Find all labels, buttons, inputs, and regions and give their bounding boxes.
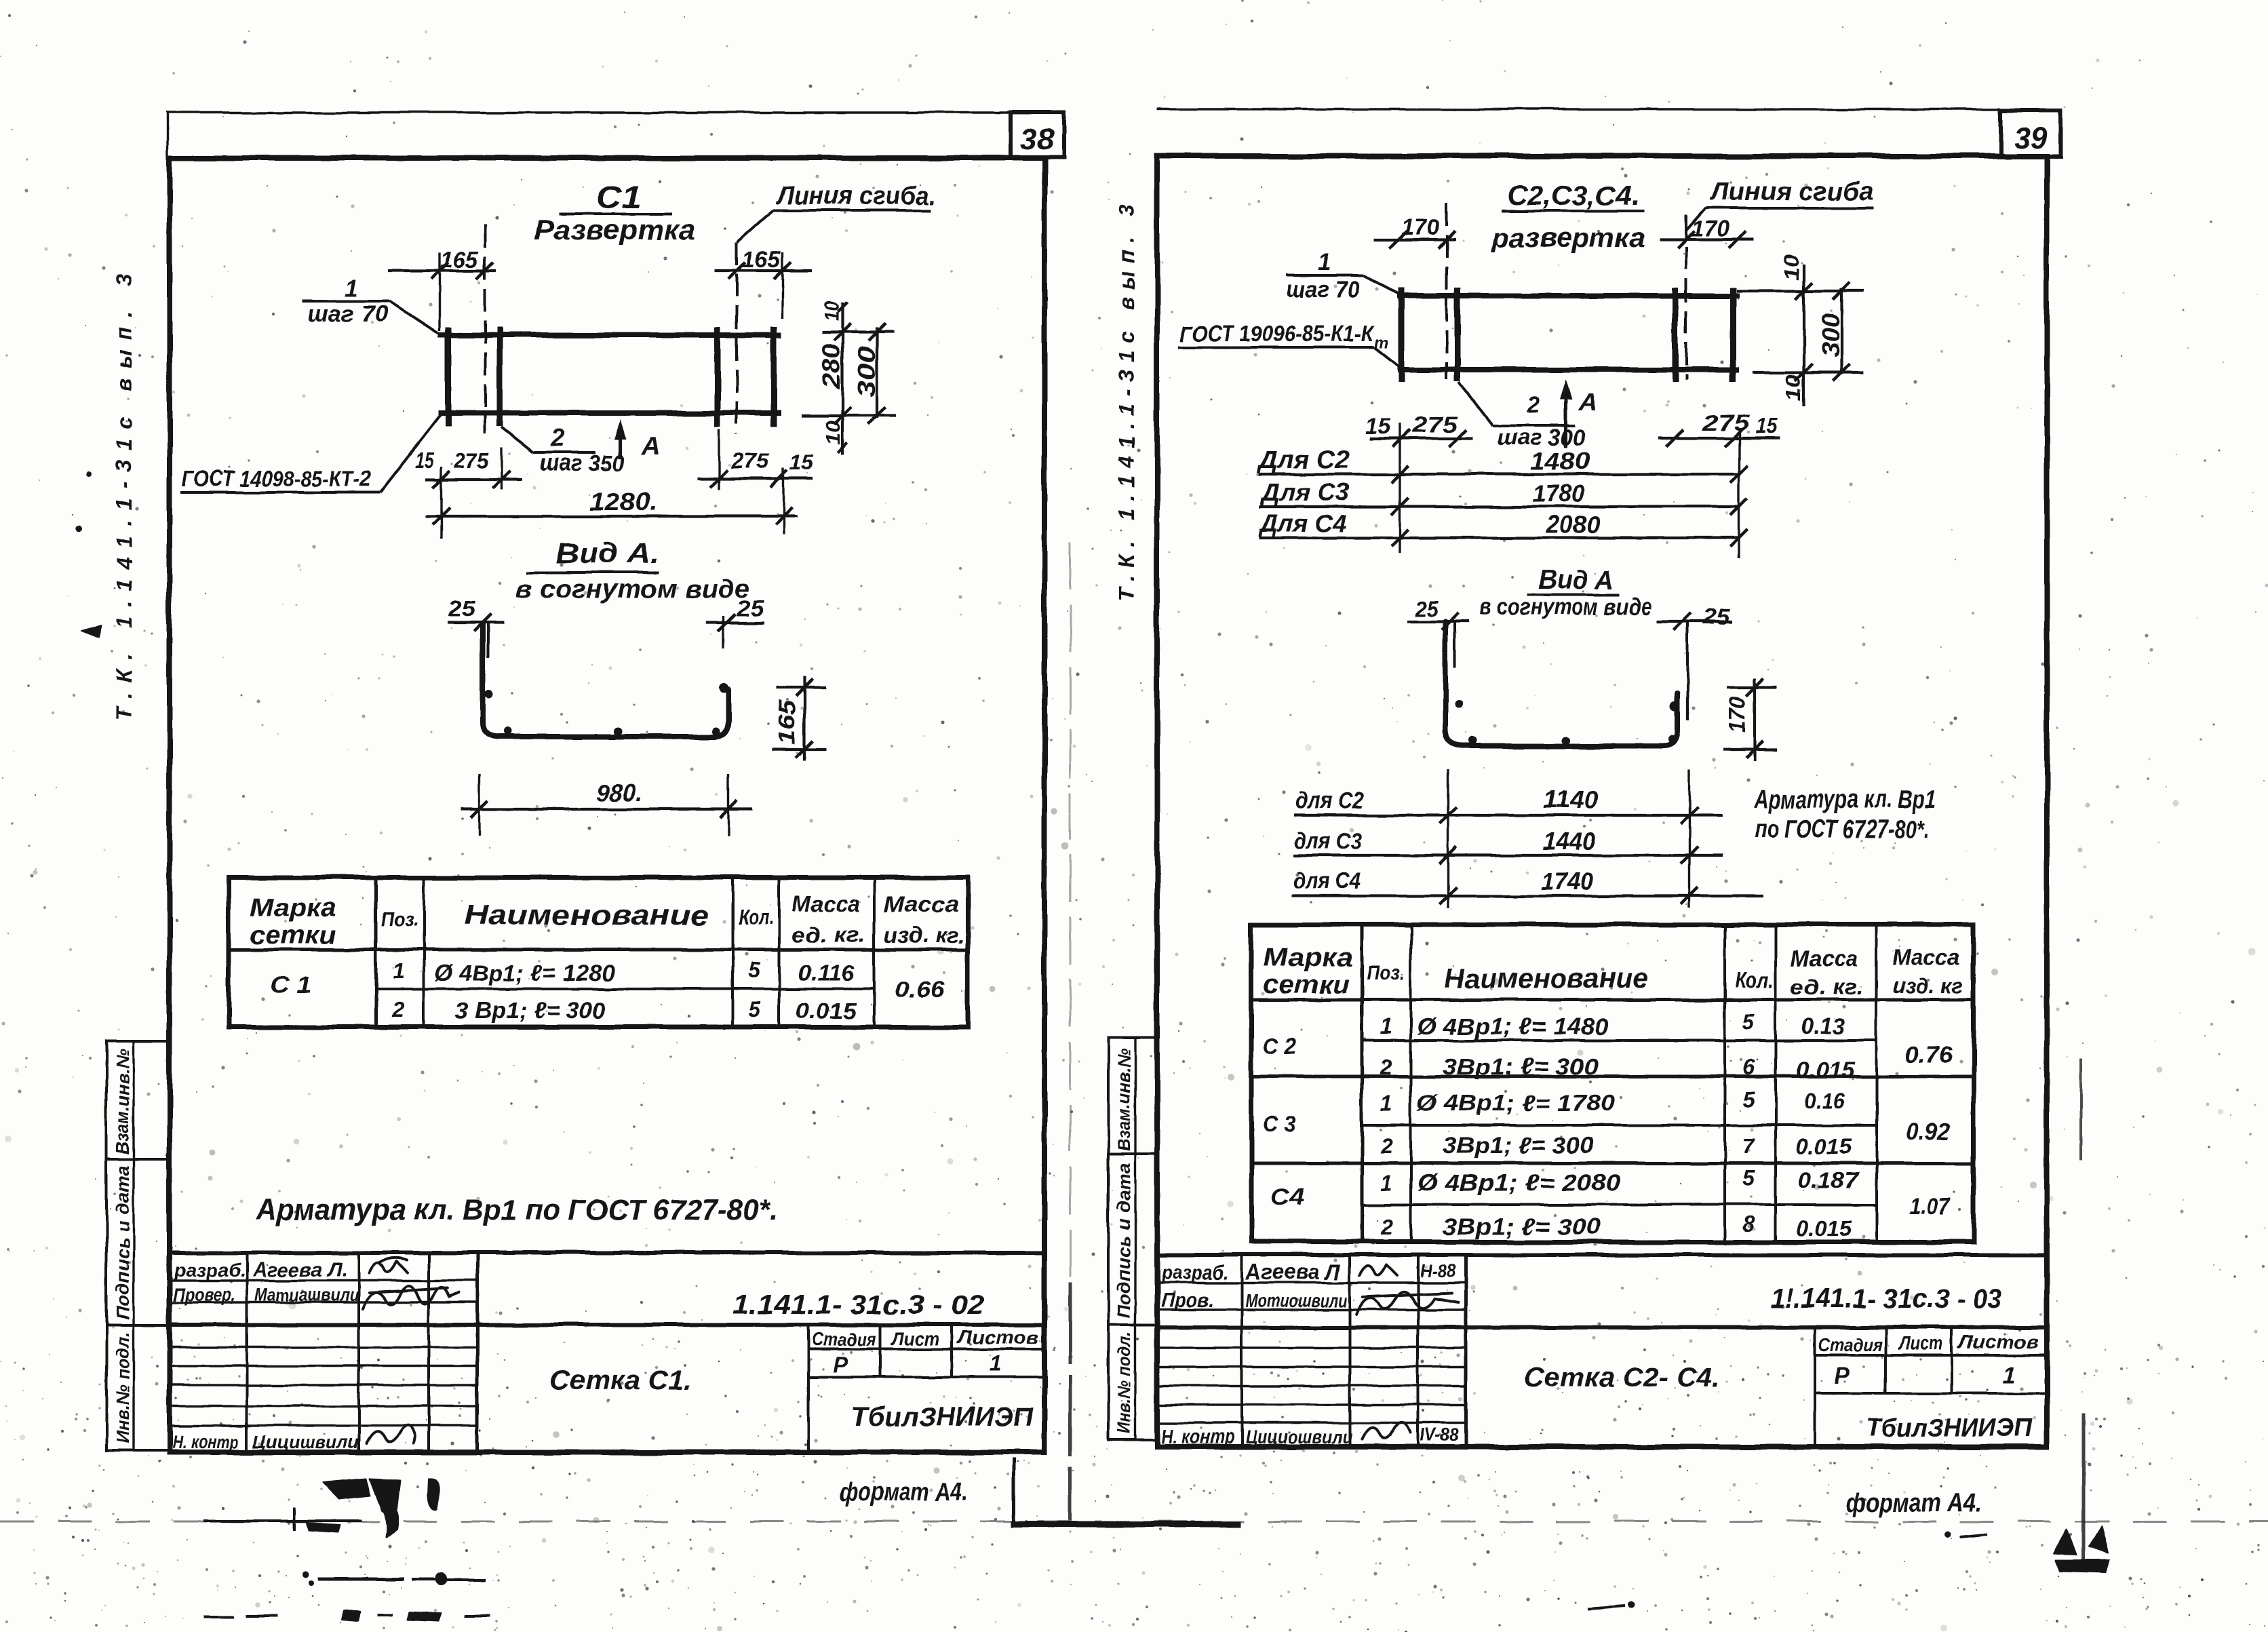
svg-text:2: 2 [549,424,564,452]
wire section dots [1469,737,1477,745]
svg-text:1: 1 [1380,1171,1392,1195]
svg-text:5: 5 [1742,1087,1755,1112]
svg-text:для С2: для С2 [1295,788,1363,814]
svg-text:С 3: С 3 [1263,1111,1296,1137]
svg-text:0.187: 0.187 [1797,1168,1860,1192]
svg-text:Стадия: Стадия [1818,1334,1882,1355]
svg-text:15: 15 [790,450,814,475]
svg-text:1.07: 1.07 [1909,1194,1951,1220]
mesh C1 cross bar 3 [715,327,721,427]
svg-text:ТбилЗНИИЭП: ТбилЗНИИЭП [1866,1414,2033,1443]
svg-text:ед. кг.: ед. кг. [792,922,865,947]
svg-text:0.015: 0.015 [1796,1134,1852,1159]
svg-text:1440: 1440 [1543,828,1596,855]
mesh C1 cross bar 1 [446,327,452,427]
title block sheet 38 [170,1251,1044,1255]
svg-text:0.116: 0.116 [798,961,855,986]
svg-text:170: 170 [1725,697,1751,733]
sheet 38 frame border [170,158,1044,1452]
svg-text:Арматура кл. Вр1: Арматура кл. Вр1 [1754,785,1936,814]
svg-text:Провер,: Провер, [173,1284,235,1305]
svg-text:2080: 2080 [1546,511,1601,539]
svg-text:формат А4.: формат А4. [1846,1489,1982,1517]
bottom-right streak and blobs [2079,1058,2082,1160]
svg-text:Вид А: Вид А [1538,565,1614,595]
svg-text:по ГОСТ 6727-80*.: по ГОСТ 6727-80*. [1755,815,1930,844]
svg-text:С4: С4 [1271,1184,1304,1210]
sheet 39 left filing strip [1108,1038,1157,1440]
svg-text:Марка: Марка [250,894,336,922]
svg-text:3Вр1; ℓ= 300: 3Вр1; ℓ= 300 [1443,1054,1599,1080]
svg-text:Развертка: Развертка [534,214,696,246]
svg-text:1: 1 [393,958,405,983]
svg-text:Ø 4Вр1; ℓ= 2080: Ø 4Вр1; ℓ= 2080 [1417,1170,1621,1196]
mesh cross bar 2 [1455,288,1461,382]
svg-text:Для С3: Для С3 [1259,478,1350,506]
svg-text:Взам.инв.№: Взам.инв.№ [113,1049,133,1154]
svg-text:15: 15 [1365,414,1391,438]
svg-text:25: 25 [1702,604,1730,629]
sheet 39 paper edge line [1156,108,2001,110]
svg-text:Цицишвили: Цицишвили [253,1432,359,1452]
svg-text:сетки: сетки [1263,971,1350,999]
svg-text:2: 2 [392,998,405,1022]
svg-text:С 1: С 1 [270,973,311,998]
stadia grid [807,1325,810,1452]
svg-text:Сетка С1.: Сетка С1. [549,1365,692,1395]
svg-text:Наименование: Наименование [464,899,709,931]
svg-text:Агеева Л: Агеева Л [1245,1260,1341,1284]
svg-text:0.015: 0.015 [1796,1057,1856,1082]
svg-text:Поз.: Поз. [381,908,418,931]
svg-text:1: 1 [2003,1362,2016,1388]
svg-text:Линия сгиба: Линия сгиба [1709,178,1873,206]
svg-text:170: 170 [1692,216,1729,241]
fold line left (dashed) [484,225,486,434]
svg-text:Кол.: Кол. [738,905,774,929]
svg-text:разраб.: разраб. [1160,1262,1229,1284]
svg-text:ГОСТ 19096-85-К1-К: ГОСТ 19096-85-К1-К [1180,321,1375,346]
dim rows dlja C2/C3/C4 bent [1447,769,1449,908]
svg-text:165: 165 [775,699,800,745]
fold line right (dashed) [1685,215,1687,380]
fold line left (dashed) [1445,203,1448,380]
mesh C2-C4 bottom wire [1397,367,1739,372]
svg-text:2: 2 [1380,1215,1392,1239]
svg-text:1140: 1140 [1543,785,1599,813]
bottom-left scratch line [203,1519,361,1522]
svg-text:Вид А.: Вид А. [555,537,660,569]
mesh C2-C4 top wire [1397,293,1739,298]
svg-text:170: 170 [1401,215,1439,239]
svg-text:Ø 4Вр1; ℓ= 1780: Ø 4Вр1; ℓ= 1780 [1417,1091,1614,1116]
mesh C1 cross bar 4 [771,327,777,427]
svg-text:С1: С1 [596,179,642,214]
svg-text:Масса: Масса [1892,945,1960,969]
bottom-left ink blobs [323,1479,370,1499]
sheet 38 paper edge line [166,111,1011,113]
svg-text:Для С4: Для С4 [1258,509,1347,537]
svg-text:шаг 70: шаг 70 [307,301,388,327]
svg-text:Марка: Марка [1263,944,1353,972]
wire section dots [503,727,511,735]
svg-text:39: 39 [2014,121,2048,155]
svg-text:Лист: Лист [891,1328,939,1349]
svg-text:275: 275 [730,449,770,473]
svg-text:IV-88: IV-88 [1420,1424,1458,1445]
svg-text:0.015: 0.015 [796,998,857,1023]
mesh C1 cross bar 2 [497,327,503,427]
svg-text:10: 10 [821,301,843,322]
svg-text:15: 15 [415,448,435,473]
svg-text:Мотиошвили: Мотиошвили [1245,1290,1347,1311]
section arrow A [619,425,623,459]
svg-text:Ø 4Вр1; ℓ= 1280: Ø 4Вр1; ℓ= 1280 [435,960,614,986]
bent mesh U-shape [1445,621,1677,746]
svg-text:Цициошвили: Цициошвили [1245,1426,1352,1448]
svg-text:А: А [640,433,659,461]
svg-text:Для С2: Для С2 [1257,446,1350,473]
svg-text:Пров.: Пров. [1161,1289,1214,1312]
svg-text:ТбилЗНИИЭП: ТбилЗНИИЭП [851,1402,1034,1432]
svg-text:изд. кг.: изд. кг. [884,923,964,948]
sheet 38 page number box [1011,113,1063,157]
fold line right (dashed) [735,242,738,434]
svg-text:развертка: развертка [1491,223,1645,253]
svg-text:для С4: для С4 [1293,868,1361,894]
small marks right of sheet39 title [1944,1531,1951,1538]
svg-text:Сетка С2- С4.: Сетка С2- С4. [1524,1363,1720,1393]
dark gutter mark at bottom center [1011,1521,1241,1528]
svg-text:Подпись и дата: Подпись и дата [1114,1163,1134,1319]
svg-text:165: 165 [742,247,781,273]
svg-text:8: 8 [1742,1212,1755,1237]
svg-text:1: 1 [345,274,358,302]
svg-text:25: 25 [448,597,476,621]
mesh C1 top wire [438,332,781,338]
svg-text:Лист: Лист [1898,1333,1943,1354]
section arrow A [1565,385,1568,448]
svg-text:в согнутом виде: в согнутом виде [1479,594,1651,620]
svg-text:5: 5 [1742,1010,1755,1034]
svg-text:Стадия: Стадия [812,1329,876,1350]
svg-text:2: 2 [1380,1133,1392,1158]
svg-text:10: 10 [1781,254,1803,281]
stadia grid [1814,1327,1816,1447]
mesh C1 bottom wire [438,410,781,416]
svg-text:300: 300 [853,347,880,397]
svg-text:1.141.1- 31с.3 - 02: 1.141.1- 31с.3 - 02 [732,1290,984,1320]
svg-text:5: 5 [748,997,761,1022]
svg-text:изд. кг: изд. кг [1892,973,1963,998]
svg-text:шаг 70: шаг 70 [1286,277,1359,303]
svg-text:5: 5 [1742,1166,1755,1190]
svg-text:Поз.: Поз. [1367,962,1405,984]
mesh cross bar 3 [1673,288,1679,382]
svg-text:3Вр1; ℓ= 300: 3Вр1; ℓ= 300 [1443,1133,1594,1159]
mesh cross bar 1 [1399,288,1405,382]
svg-text:275: 275 [1411,412,1459,437]
small marks left margin sheet38 [75,526,82,532]
svg-text:ГОСТ 14098-85-КТ-2: ГОСТ 14098-85-КТ-2 [182,466,371,491]
dim 165 bent height [803,676,806,761]
svg-text:Арматура кл. Вр1 по ГОСТ 672: Арматура кл. Вр1 по ГОСТ 6727-80*. [255,1193,778,1226]
svg-text:165: 165 [440,247,479,273]
svg-text:25: 25 [1415,596,1439,621]
svg-text:1280.: 1280. [589,488,657,516]
svg-text:Масса: Масса [884,892,959,916]
svg-text:формат А4.: формат А4. [840,1478,968,1507]
svg-text:Н-88: Н-88 [1420,1260,1455,1281]
svg-text:0.13: 0.13 [1801,1014,1845,1038]
svg-text:разраб.: разраб. [174,1260,246,1281]
svg-text:1740: 1740 [1540,868,1593,895]
bent mesh U-shape [483,624,728,737]
svg-text:С2,С3,С4.: С2,С3,С4. [1507,181,1640,211]
sheet 39 page number box [2001,111,2060,156]
svg-text:Агеева Л.: Агеева Л. [252,1259,347,1281]
svg-text:2: 2 [1527,392,1540,418]
svg-text:С 2: С 2 [1263,1034,1296,1060]
sheet 39 frame border [1157,156,2047,1447]
svg-text:7: 7 [1742,1133,1756,1158]
right dim stack 10/300/10 [1736,290,1864,292]
svg-text:1780: 1780 [1533,480,1584,507]
dim 170 bent height [1753,678,1756,761]
svg-text:Н. контр: Н. контр [172,1431,239,1452]
svg-text:ед. кг.: ед. кг. [1791,975,1864,999]
svg-text:2: 2 [1380,1055,1392,1079]
svg-text:Подпись и дата: Подпись и дата [113,1165,133,1320]
svg-text:0.92: 0.92 [1906,1119,1950,1145]
parts table C1 [229,878,968,1027]
svg-text:Линия сгиба.: Линия сгиба. [775,182,936,210]
svg-text:10: 10 [822,421,844,445]
svg-text:1480: 1480 [1530,447,1590,475]
svg-text:Кол.: Кол. [1735,968,1774,992]
svg-text:0.76: 0.76 [1904,1042,1953,1068]
mesh cross bar 4 [1730,288,1736,382]
svg-text:Листов: Листов [956,1327,1039,1348]
svg-text:300: 300 [1816,313,1844,357]
sheet 38 left filing strip [106,1041,170,1450]
svg-text:Наименование: Наименование [1445,962,1648,994]
svg-text:сетки: сетки [250,921,336,950]
svg-text:1: 1 [1380,1091,1392,1116]
bottom scan boundary line [0,1521,2268,1523]
svg-text:1: 1 [990,1351,1002,1376]
svg-text:3Вр1; ℓ= 300: 3Вр1; ℓ= 300 [1443,1214,1601,1240]
svg-text:280: 280 [817,344,845,389]
svg-text:Матиашвили: Матиашвили [255,1285,359,1305]
svg-text:0.16: 0.16 [1804,1089,1845,1113]
svg-text:0.66: 0.66 [895,977,945,1003]
svg-text:3 Вр1; ℓ= 300: 3 Вр1; ℓ= 300 [454,998,606,1024]
svg-text:1: 1 [1318,250,1331,275]
svg-text:Взам.инв.№: Взам.инв.№ [1114,1048,1134,1151]
svg-text:для С3: для С3 [1294,828,1362,854]
svg-text:38: 38 [1021,123,1054,156]
svg-text:0.015: 0.015 [1796,1216,1852,1241]
svg-text:6: 6 [1742,1055,1755,1079]
svg-text:25: 25 [736,596,764,621]
svg-text:1: 1 [1380,1014,1392,1038]
svg-text:Инв.№ подл.: Инв.№ подл. [1114,1332,1134,1434]
svg-text:Ø 4Вр1; ℓ= 1480: Ø 4Вр1; ℓ= 1480 [1417,1014,1608,1040]
parts table C2-C4 [1251,925,1974,1242]
gutter vertical streak between sheets [1070,543,1072,1282]
svg-text:А: А [1578,388,1597,416]
svg-text:Масса: Масса [1791,946,1858,971]
svg-text:Р: Р [834,1353,848,1377]
svg-text:шаг 350: шаг 350 [540,450,625,476]
svg-text:15: 15 [1755,414,1778,438]
title block sheet 39 [1157,1253,2047,1257]
bottom-left small marks row [318,1578,404,1581]
svg-text:980.: 980. [596,779,642,807]
svg-text:Инв.№ подл.: Инв.№ подл. [113,1332,133,1443]
svg-text:Листов: Листов [1957,1332,2039,1353]
svg-text:1!.141.1- 31с.3 - 03: 1!.141.1- 31с.3 - 03 [1770,1284,2002,1314]
svg-text:275: 275 [1702,411,1750,435]
right dim stack 10/280/300/10 [822,331,894,334]
svg-text:Р: Р [1835,1363,1850,1389]
svg-text:5: 5 [748,958,761,982]
svg-text:275: 275 [454,448,489,473]
svg-text:в согнутом виде: в согнутом виде [516,575,749,604]
svg-text:Н. контр: Н. контр [1161,1426,1234,1448]
svg-text:10: 10 [1783,374,1805,402]
bottom-left dashes [203,1616,235,1618]
svg-text:Масса: Масса [792,892,860,916]
